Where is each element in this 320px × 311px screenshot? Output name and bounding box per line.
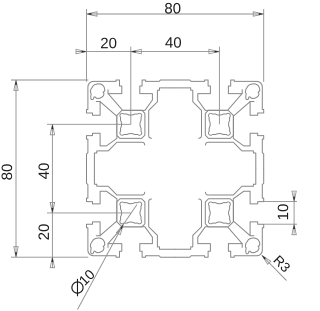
core tube bottom-right bbox=[205, 199, 233, 227]
arrows top 80 dim bbox=[87, 12, 98, 16]
dim text 20 left bbox=[38, 224, 49, 239]
centerline slot y=60 horizontal bbox=[47, 212, 131, 214]
arrows right 10 dim outside bbox=[292, 191, 296, 202]
core tube bottom-left bbox=[117, 199, 145, 227]
core tube top-right bbox=[205, 110, 233, 138]
arrows left 80 dim bbox=[14, 80, 18, 91]
corner screw channel blob bottom-left bbox=[90, 238, 104, 254]
leader text diameter 10 bbox=[69, 268, 97, 296]
extension lines right 10 dim bbox=[264, 201, 297, 203]
web rib under bottom-right outer walls bbox=[175, 169, 256, 250]
profile outer contour with T-slots, top-right quadrant bbox=[175, 80, 264, 169]
extension lines left 80 dim bbox=[11, 79, 88, 81]
corner channel walls bottom-left bbox=[96, 236, 108, 248]
corner screw channel blob bottom-right bbox=[245, 238, 259, 254]
profile outer contour with T-slots, bottom-left quadrant bbox=[87, 169, 176, 258]
centerline slot x=60 vertical bbox=[218, 47, 220, 125]
dim text 80 left bbox=[2, 164, 13, 179]
arrows left 40 dim bbox=[50, 124, 54, 135]
leader text R3 bbox=[273, 255, 291, 273]
dim text 10 right bbox=[278, 204, 289, 219]
arrow 40 dim right bbox=[209, 49, 220, 53]
corner channel walls top-right bbox=[242, 90, 254, 102]
core screw hole top-left bbox=[120, 113, 142, 135]
corner channel walls bottom-right bbox=[242, 236, 254, 248]
web rib under top-left outer walls bbox=[94, 88, 175, 169]
extension lines top 80 dim bbox=[86, 9, 88, 82]
leader line R3 bbox=[262, 255, 287, 280]
arrow leader d10 bbox=[116, 224, 123, 234]
core screw hole bottom-left bbox=[120, 202, 142, 224]
dim line 20 left-bottom bbox=[51, 203, 53, 268]
arrow leader R3 bbox=[262, 255, 271, 264]
leader line diameter 10 bbox=[78, 225, 124, 310]
central cavity walls top-left bbox=[98, 91, 158, 151]
arrows left 20 dim outside bbox=[50, 202, 54, 213]
dim text 40 left bbox=[38, 163, 49, 179]
web rib under top-right outer walls bbox=[175, 88, 256, 169]
dim text 80 top bbox=[165, 3, 180, 14]
corner screw channel blob top-right bbox=[245, 84, 259, 100]
dim line 40 left bbox=[51, 124, 53, 213]
profile outer contour with T-slots, top-left quadrant bbox=[87, 80, 176, 169]
central cavity walls bottom-left bbox=[98, 186, 158, 246]
dim line 20/40 top bbox=[76, 51, 219, 53]
arrow shared at slot1 bbox=[131, 49, 142, 53]
dim text 20 top bbox=[101, 38, 116, 49]
central cavity walls top-right bbox=[193, 91, 253, 151]
dim line 80 left bbox=[15, 80, 17, 257]
web rib under bottom-left outer walls bbox=[94, 169, 175, 250]
corner channel walls top-left bbox=[96, 90, 108, 102]
central cavity walls bottom-right bbox=[193, 186, 253, 246]
profile outer contour with T-slots, bottom-right quadrant bbox=[175, 169, 264, 258]
core screw hole bottom-right bbox=[208, 202, 230, 224]
core tube top-left bbox=[117, 110, 145, 138]
corner screw channel blob top-left bbox=[90, 84, 104, 100]
dim line 10 right bbox=[293, 192, 295, 233]
dim text 40 top bbox=[165, 37, 181, 48]
dim line 80 top bbox=[87, 13, 264, 15]
arrow 20 dim outside-left bbox=[76, 49, 87, 53]
core screw hole top-right bbox=[208, 113, 230, 135]
centerline slot x=20 vertical bbox=[130, 47, 132, 125]
centerline slot y=20 horizontal bbox=[47, 123, 131, 125]
